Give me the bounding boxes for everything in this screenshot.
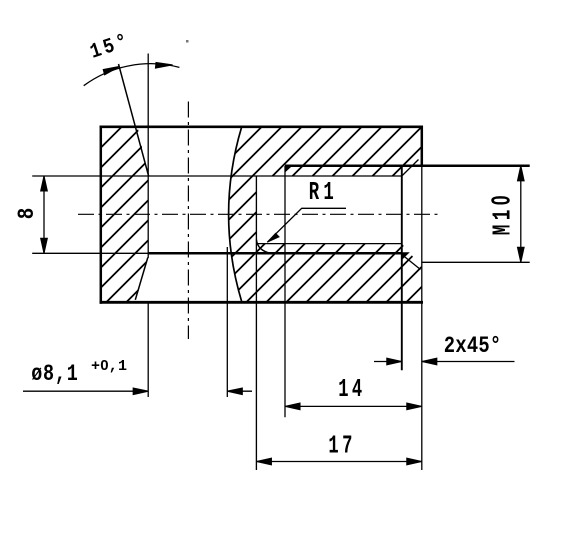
part outline bottom edge (100, 301, 423, 304)
dia dim extension below part (147, 302, 149, 397)
svg-text:+0,1: +0,1 (91, 357, 127, 375)
svg-text:ø8,1: ø8,1 (31, 362, 78, 387)
dim dia 8,1 arrow right-pointing (133, 388, 148, 395)
svg-text:14: 14 (338, 375, 365, 405)
svg-text:2x45°: 2x45° (444, 333, 502, 360)
dim 17 dimension line (256, 461, 421, 463)
thick line start triangle top (285, 165, 294, 173)
dim 2x45 right tail (422, 361, 515, 363)
bore bottom thick line (148, 252, 402, 255)
cross-hole right wall intersection curve (229, 127, 242, 303)
fillet R1 runout curve (256, 240, 271, 254)
drilled hole bottom vertical line with extension to 17 dim (255, 176, 257, 470)
M10 lower extension line (422, 261, 530, 263)
part outline top edge (100, 126, 423, 129)
angle arc arrow at slant (103, 66, 119, 75)
bore bottom thin line (256, 243, 402, 245)
dim 8 arrow down (41, 238, 48, 253)
dim M10 arrow up (518, 166, 525, 181)
part right face thin line with extension down to 17 dimension (421, 166, 423, 470)
part outline right edge upper thick segment (421, 126, 424, 167)
dim 17 arrow left (256, 458, 271, 465)
angle arc arrow right (155, 63, 172, 69)
stray dot (186, 40, 189, 43)
bore top thick line / M10 upper extension (285, 165, 530, 168)
chamfer 15deg slant line on left cross-hole (119, 64, 149, 176)
top right chamfer slant (402, 160, 419, 177)
dim 2x45 arrow left-pointing (422, 358, 437, 365)
dim 17 arrow right (407, 458, 422, 465)
svg-text:17: 17 (328, 431, 355, 461)
dim dia 8,1 arrow left-pointing (227, 388, 242, 395)
svg-text:M10: M10 (486, 191, 518, 235)
hatched section material (101, 127, 422, 303)
dim dia 8,1 dimension line left part (23, 390, 148, 392)
thick line start triangle bottom right (402, 252, 410, 260)
vertical cross-hole centerline (187, 102, 189, 340)
dim 14 arrow right (407, 403, 422, 410)
dim 8 dimension line (43, 176, 45, 253)
dim 14 dimension line (285, 405, 422, 407)
leader R1 arrow (267, 233, 279, 242)
dim M10 dimension line (520, 166, 522, 262)
dim 2x45 arrow right-pointing (387, 358, 402, 365)
leader R1 (267, 208, 346, 242)
bore top major thin line (32, 175, 402, 177)
dim 8 lower extension thin segment (32, 252, 148, 254)
chamfer start thick line / 2x45 extension (401, 167, 403, 370)
bottom right chamfer slant (402, 255, 421, 270)
cross-hole left wall / extension line (angle dim above) (147, 54, 149, 259)
part outline left edge (100, 126, 103, 304)
svg-text:8: 8 (15, 208, 41, 220)
dim dia 8,1 right extension line (226, 247, 228, 397)
angle dim arc (84, 64, 180, 86)
svg-text:R1: R1 (309, 178, 338, 207)
horizontal axis centerline (78, 213, 440, 215)
dim 14 arrow left (285, 403, 300, 410)
thread end extension line for 14 dim (284, 166, 286, 417)
cross-hole bottom flare slant (135, 258, 148, 300)
dim 2x45 left tail (374, 361, 402, 363)
dim dia 8,1 dimension line right tail (227, 390, 252, 392)
dim M10 arrow down (518, 247, 525, 262)
dim 8 arrow up (41, 176, 48, 191)
